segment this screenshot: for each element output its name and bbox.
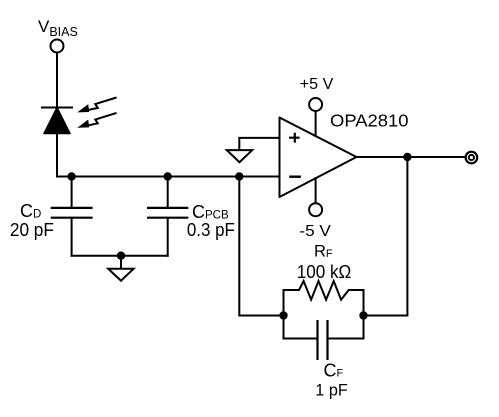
wire input bus xyxy=(56,176,280,178)
op-amp U1 OPA2810 xyxy=(280,118,357,198)
node feedback right xyxy=(359,311,367,319)
wire VBIAS to photodiode xyxy=(56,53,58,108)
node feedback left xyxy=(279,311,287,319)
wire +5V to op-amp xyxy=(315,111,317,137)
wire output xyxy=(357,156,465,158)
op-amp plus sign xyxy=(289,133,300,143)
ground (noninverting input) xyxy=(227,150,252,162)
supply -5V terminal xyxy=(309,203,322,216)
svg-text:100 kΩ: 100 kΩ xyxy=(297,262,352,282)
photodiode D1 xyxy=(41,108,73,134)
resistor RF xyxy=(284,281,364,316)
wire noninverting input to ground xyxy=(239,138,279,150)
capacitor CF xyxy=(284,316,364,361)
svg-text:OPA2810: OPA2810 xyxy=(330,110,409,130)
node inverting input junction xyxy=(235,172,243,180)
terminal VBIAS xyxy=(51,40,64,53)
light arrow 1 xyxy=(87,98,117,111)
node ground junction xyxy=(117,252,125,260)
node CD junction xyxy=(67,172,75,180)
light arrow 2 xyxy=(87,113,117,126)
terminal output xyxy=(466,152,478,164)
svg-text:1 pF: 1 pF xyxy=(315,381,348,399)
wire feedback right xyxy=(364,157,408,316)
svg-text:0.3 pF: 0.3 pF xyxy=(187,220,235,240)
wire cap bottom rail xyxy=(71,255,169,257)
svg-text:+5 V: +5 V xyxy=(300,76,334,93)
ground (capacitors) xyxy=(108,269,133,281)
wire ground stub xyxy=(120,256,122,269)
node CPCB junction xyxy=(164,172,172,180)
wire op-amp to -5V xyxy=(315,177,317,203)
capacitor CD xyxy=(51,177,93,257)
node output junction xyxy=(403,153,411,161)
wire feedback left xyxy=(239,177,283,316)
svg-text:-5 V: -5 V xyxy=(299,223,331,240)
capacitor CPCB xyxy=(147,177,188,257)
svg-text:20 pF: 20 pF xyxy=(10,220,54,240)
op-amp minus sign xyxy=(289,175,301,177)
supply +5V terminal xyxy=(309,98,322,111)
wire photodiode to bus xyxy=(56,133,58,177)
